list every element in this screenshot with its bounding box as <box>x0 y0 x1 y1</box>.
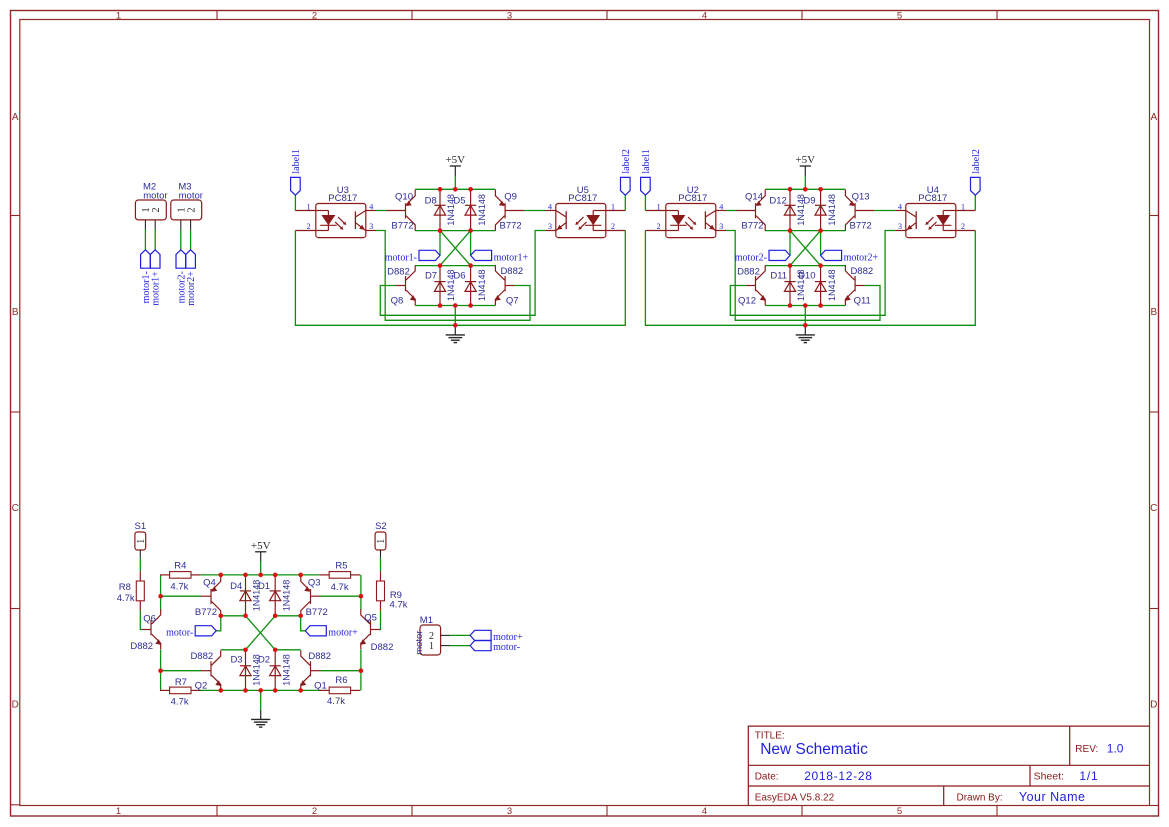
net flag label2 <box>971 177 981 195</box>
svg-text:4.7k: 4.7k <box>117 593 135 604</box>
svg-text:REV:: REV: <box>1075 744 1098 755</box>
svg-text:D882: D882 <box>737 266 760 277</box>
svg-text:1N4148: 1N4148 <box>477 269 487 301</box>
svg-text:B772: B772 <box>195 607 217 618</box>
svg-text:4: 4 <box>702 806 707 817</box>
switch pad S1 <box>135 532 146 550</box>
wire gnd stem <box>454 306 456 326</box>
svg-text:C: C <box>12 503 19 514</box>
transistor Q8 D882 <box>396 285 406 287</box>
diode D7 1N4148 <box>439 266 441 306</box>
svg-text:R6: R6 <box>335 675 347 686</box>
svg-text:label2: label2 <box>971 149 982 173</box>
wire Q3 collector row <box>275 615 301 617</box>
diode D4 1N4148 <box>245 575 247 616</box>
net flag motor2+ <box>821 250 842 260</box>
wire R7 leg <box>160 671 162 691</box>
wire U5.4 to Q9 base <box>524 210 545 212</box>
svg-text:New Schematic: New Schematic <box>760 741 868 758</box>
connector M1 motor <box>420 625 441 655</box>
net flag label1 <box>291 177 301 195</box>
svg-text:2: 2 <box>961 222 965 231</box>
svg-text:label2: label2 <box>621 149 632 173</box>
diode D12 1N4148 <box>789 189 791 230</box>
svg-text:Q4: Q4 <box>203 577 216 588</box>
svg-text:motor+: motor+ <box>328 628 358 639</box>
junction dots bottom bridge <box>219 573 224 578</box>
net flag label2 <box>621 177 631 195</box>
svg-text:D4: D4 <box>230 581 242 592</box>
net flag motor- <box>195 626 216 636</box>
wire cross diag 2 <box>440 231 471 266</box>
svg-text:1N4148: 1N4148 <box>477 194 487 226</box>
net flag motor2- <box>769 250 790 260</box>
wire motor+ stub <box>301 616 306 631</box>
svg-text:B772: B772 <box>391 220 413 231</box>
wire bottom cross diag 1 <box>246 616 276 650</box>
diode D9 1N4148 <box>820 189 822 230</box>
wire M3 pin2 to motor2+ <box>190 230 192 250</box>
wire bottom emitter rail <box>201 689 320 691</box>
wire U4.3 to Q12 base <box>730 231 895 316</box>
pin stubs M1 <box>441 634 451 636</box>
title block row line 2 <box>748 785 1149 787</box>
svg-text:5: 5 <box>897 10 902 21</box>
wire Q4 collector row <box>221 615 246 617</box>
diode D6 1N4148 <box>470 266 472 306</box>
junction dots bridge <box>788 187 793 192</box>
svg-text:D882: D882 <box>190 651 213 662</box>
svg-text:PC817: PC817 <box>328 193 357 204</box>
diode D11 1N4148 <box>789 266 791 306</box>
transistor Q3 B772 <box>311 595 321 597</box>
svg-text:1: 1 <box>307 202 311 211</box>
svg-text:C: C <box>1150 503 1157 514</box>
svg-text:D7: D7 <box>425 270 437 281</box>
title block row line 1 <box>748 764 1149 766</box>
wire U3.3 to Q7 base <box>376 231 530 321</box>
svg-text:3: 3 <box>507 806 512 817</box>
svg-text:3: 3 <box>898 222 902 231</box>
net flag motor- at M1 <box>470 641 491 651</box>
transistor Q6 D882 <box>141 629 151 631</box>
svg-text:B772: B772 <box>741 220 763 231</box>
svg-text:4.7k: 4.7k <box>170 582 188 593</box>
wire S1 to R8 <box>139 558 141 572</box>
svg-text:2: 2 <box>307 222 311 231</box>
svg-text:2: 2 <box>312 806 317 817</box>
wire M1 pin2 to motor+ <box>450 634 470 636</box>
svg-text:D5: D5 <box>453 196 465 207</box>
svg-text:motor1-: motor1- <box>385 252 417 263</box>
svg-text:D3: D3 <box>230 655 242 666</box>
resistor R6 4.7k <box>320 689 330 691</box>
svg-text:3: 3 <box>369 222 373 231</box>
wire Q1 collector row <box>275 649 301 651</box>
svg-text:B772: B772 <box>306 607 328 618</box>
svg-text:2: 2 <box>657 222 661 231</box>
transistor Q11 D882 <box>855 285 865 287</box>
title block date/sheet divider <box>1029 765 1031 786</box>
svg-text:1N4148: 1N4148 <box>282 654 292 686</box>
wire U2.3 to Q11 base <box>726 231 880 321</box>
ground symbol bottom <box>260 710 262 720</box>
wire U4.4 to Q13 base <box>874 210 895 212</box>
transistor Q10 B772 <box>387 210 406 212</box>
svg-text:Q12: Q12 <box>738 296 756 307</box>
wire base row left to Q4 <box>161 595 201 597</box>
svg-text:3: 3 <box>548 222 552 231</box>
wire Q6 collector net <box>160 596 162 610</box>
row ticks right <box>1150 215 1159 217</box>
svg-text:S1: S1 <box>134 521 146 532</box>
svg-text:Your Name: Your Name <box>1019 790 1086 804</box>
transistor Q1 D882 <box>311 670 321 672</box>
svg-text:1/1: 1/1 <box>1079 769 1098 783</box>
svg-text:D882: D882 <box>500 266 523 277</box>
svg-text:B772: B772 <box>850 220 872 231</box>
svg-text:Q9: Q9 <box>504 192 517 203</box>
svg-text:motor: motor <box>179 190 203 201</box>
net flag motor1- <box>419 250 440 260</box>
svg-text:motor1+: motor1+ <box>151 271 162 306</box>
net flag motor+ at M1 <box>470 630 491 640</box>
wire motor- stub <box>216 616 221 631</box>
svg-text:EasyEDA V5.8.22: EasyEDA V5.8.22 <box>755 792 835 803</box>
svg-text:PC817: PC817 <box>678 193 707 204</box>
wire Q5 collector net <box>360 596 362 610</box>
transistor Q4 B772 <box>201 595 211 597</box>
svg-text:3: 3 <box>507 10 512 21</box>
svg-text:Date:: Date: <box>755 772 779 783</box>
row ticks left <box>11 215 20 217</box>
connector M3 motor <box>171 200 202 220</box>
pin stubs M3 <box>180 220 182 230</box>
column ticks bottom <box>216 806 218 817</box>
wire M2 pin1 to motor1- <box>144 230 146 250</box>
svg-text:2: 2 <box>151 207 162 212</box>
net flag motor1+ <box>150 250 160 268</box>
svg-text:B772: B772 <box>500 220 522 231</box>
svg-text:D882: D882 <box>308 651 331 662</box>
svg-text:2018-12-28: 2018-12-28 <box>804 769 872 783</box>
wire cross diag 1 <box>790 231 821 266</box>
wire lower bridge row <box>765 265 845 267</box>
svg-text:1: 1 <box>136 539 147 544</box>
svg-text:R8: R8 <box>119 582 131 593</box>
svg-text:4: 4 <box>369 202 373 211</box>
connector M2 motor <box>135 200 166 220</box>
svg-text:motor2+: motor2+ <box>186 271 197 306</box>
net flag motor+ <box>305 626 326 636</box>
svg-text:Q2: Q2 <box>195 681 208 692</box>
svg-text:1: 1 <box>116 10 121 21</box>
svg-text:4.7k: 4.7k <box>171 697 189 708</box>
svg-text:4: 4 <box>702 10 707 21</box>
svg-text:PC817: PC817 <box>918 193 947 204</box>
svg-text:B: B <box>1150 307 1157 318</box>
frame bottom-right tick <box>1150 805 1159 807</box>
svg-text:R4: R4 <box>174 561 186 572</box>
wire M2 pin2 to motor1+ <box>154 230 156 250</box>
wire motor1+ stub <box>470 231 472 256</box>
svg-text:D1: D1 <box>258 581 270 592</box>
svg-text:D882: D882 <box>850 266 873 277</box>
wire S2 to R9 <box>380 558 382 572</box>
svg-text:label1: label1 <box>641 149 652 173</box>
svg-text:A: A <box>12 112 19 123</box>
optocoupler U3 PC817 <box>316 204 366 238</box>
svg-text:D6: D6 <box>453 270 465 281</box>
svg-text:Q10: Q10 <box>395 192 413 203</box>
wire label1 to pin1 <box>294 195 296 210</box>
junction dots bridge <box>438 187 443 192</box>
wire Q6 emitter to Q2 base <box>161 650 201 671</box>
wire bottom gnd stem <box>260 690 262 709</box>
svg-text:1.0: 1.0 <box>1107 741 1124 755</box>
svg-text:Q14: Q14 <box>745 192 763 203</box>
svg-text:4.7k: 4.7k <box>331 582 349 593</box>
svg-text:S2: S2 <box>375 521 387 532</box>
svg-text:motor-: motor- <box>166 628 193 639</box>
wire label2 to pin1 <box>624 195 626 210</box>
wire Q6 base from R8 <box>139 610 142 629</box>
title block REV divider <box>1069 726 1071 765</box>
svg-text:D882: D882 <box>371 642 394 653</box>
wire top +5V rail <box>415 188 495 190</box>
svg-text:Drawn By:: Drawn By: <box>957 792 1003 803</box>
svg-text:1N4148: 1N4148 <box>827 194 837 226</box>
wire cross diag 1 <box>440 231 471 266</box>
net flag motor1+ <box>471 250 492 260</box>
wire +5V stem motor1- <box>454 176 456 189</box>
wire +5V stem motor2- <box>804 176 806 189</box>
svg-text:4: 4 <box>548 202 552 211</box>
svg-text:2: 2 <box>186 207 197 212</box>
svg-text:1N4148: 1N4148 <box>282 580 292 612</box>
svg-text:Q3: Q3 <box>308 577 321 588</box>
wire Q2 collector row <box>221 649 246 651</box>
net flag label1 <box>641 177 651 195</box>
resistor R8 4.7k <box>139 571 141 581</box>
svg-text:D2: D2 <box>258 655 270 666</box>
svg-text:1: 1 <box>657 202 661 211</box>
wire bottom +5V stem <box>260 562 262 575</box>
svg-text:R5: R5 <box>335 561 347 572</box>
wire label2 to pin1 <box>974 195 976 210</box>
transistor Q12 D882 <box>746 285 756 287</box>
ground symbol <box>454 325 456 335</box>
svg-text:A: A <box>1150 112 1157 123</box>
svg-text:B: B <box>12 307 19 318</box>
net flag motor1- <box>141 250 151 268</box>
svg-text:1: 1 <box>611 202 615 211</box>
diode D5 1N4148 <box>470 189 472 230</box>
diode D2 1N4148 <box>274 650 276 691</box>
svg-text:PC817: PC817 <box>568 193 597 204</box>
svg-text:motor: motor <box>414 631 425 655</box>
title block border <box>748 726 1149 805</box>
svg-text:3: 3 <box>719 222 723 231</box>
svg-text:Q7: Q7 <box>506 296 519 307</box>
svg-text:Q5: Q5 <box>364 613 377 624</box>
svg-text:+5V: +5V <box>445 154 465 166</box>
svg-text:motor2+: motor2+ <box>844 252 879 263</box>
wire M1 pin1 to motor- <box>450 645 470 647</box>
svg-text:2: 2 <box>611 222 615 231</box>
svg-text:motor-: motor- <box>493 642 520 653</box>
wire motor2+ stub <box>820 231 822 256</box>
wire cross diag 2 <box>790 231 821 266</box>
optocoupler U2 PC817 <box>666 204 716 238</box>
svg-text:D: D <box>12 699 19 710</box>
svg-text:D10: D10 <box>798 270 815 281</box>
switch pad S2 <box>375 532 386 550</box>
wire emitter rail <box>765 305 845 307</box>
column ticks top <box>216 11 218 20</box>
svg-text:1: 1 <box>429 641 434 652</box>
svg-text:Sheet:: Sheet: <box>1034 771 1064 783</box>
svg-text:label1: label1 <box>291 149 302 173</box>
wire Q5 emitter to Q1 base <box>321 650 361 671</box>
wire U3.4 to Q10 base <box>376 210 386 212</box>
svg-text:+5V: +5V <box>251 540 271 552</box>
svg-text:D11: D11 <box>770 270 787 281</box>
svg-text:1N4148: 1N4148 <box>827 269 837 301</box>
transistor Q7 D882 <box>505 285 514 287</box>
svg-text:D882: D882 <box>130 641 153 652</box>
resistor R4 4.7k <box>160 574 170 576</box>
frame bottom-left tick <box>11 804 20 806</box>
wire pin2 to gnd net <box>645 231 975 326</box>
svg-text:Q13: Q13 <box>852 192 870 203</box>
net flag motor2+ <box>186 250 196 268</box>
wire upper bridge row <box>415 230 495 232</box>
svg-text:Q11: Q11 <box>854 296 871 307</box>
optocoupler U5 PC817 <box>556 204 606 238</box>
svg-text:R7: R7 <box>175 677 187 688</box>
wire bottom top rail <box>160 575 162 596</box>
wire U2.4 to Q14 base <box>726 210 736 212</box>
transistor Q5 D882 <box>371 629 381 631</box>
wire motor2- stub <box>789 231 791 256</box>
wire label1 to pin1 <box>644 195 646 210</box>
svg-text:D9: D9 <box>803 196 815 207</box>
svg-text:+5V: +5V <box>795 154 815 166</box>
svg-text:Q8: Q8 <box>391 296 404 307</box>
wire M3 pin1 to motor2- <box>180 230 182 250</box>
svg-text:motor2-: motor2- <box>735 252 767 263</box>
svg-text:5: 5 <box>897 806 902 817</box>
svg-text:D882: D882 <box>387 266 410 277</box>
svg-text:4: 4 <box>719 202 723 211</box>
optocoupler U4 PC817 <box>906 204 956 238</box>
svg-text:D8: D8 <box>425 196 437 207</box>
wire gnd stem <box>804 306 806 326</box>
wire motor1- stub <box>439 231 441 256</box>
wire upper bridge row <box>765 230 845 232</box>
resistor R9 4.7k <box>380 571 382 581</box>
svg-text:motor: motor <box>143 190 167 201</box>
wire emitter rail <box>415 305 495 307</box>
diode D10 1N4148 <box>820 266 822 306</box>
svg-text:Q1: Q1 <box>314 681 327 692</box>
svg-text:motor1+: motor1+ <box>494 252 529 263</box>
svg-text:D: D <box>1150 699 1157 710</box>
ground symbol <box>804 325 806 335</box>
svg-text:D12: D12 <box>769 196 786 207</box>
pin stubs M2 <box>144 220 146 230</box>
svg-text:4.7k: 4.7k <box>390 600 408 611</box>
diode D3 1N4148 <box>245 650 247 691</box>
wire Q5 base from R9 <box>379 610 382 629</box>
svg-text:1: 1 <box>116 806 121 817</box>
svg-text:1: 1 <box>961 202 965 211</box>
diode D1 1N4148 <box>274 575 276 616</box>
svg-text:4: 4 <box>898 202 902 211</box>
wire pin2 to gnd net <box>295 231 625 326</box>
svg-text:Q6: Q6 <box>143 614 156 625</box>
transistor Q2 D882 <box>201 670 211 672</box>
wire lower bridge row <box>415 265 495 267</box>
net flag motor2- <box>176 250 186 268</box>
wire R6 leg <box>360 671 362 691</box>
svg-text:M1: M1 <box>420 615 433 626</box>
wire bottom cross diag 2 <box>246 616 276 650</box>
resistor R7 4.7k <box>160 689 170 691</box>
svg-text:2: 2 <box>312 10 317 21</box>
transistor Q9 B772 <box>505 210 524 212</box>
diode D8 1N4148 <box>439 189 441 230</box>
title block drawnby divider <box>943 786 945 806</box>
transistor Q14 B772 <box>737 210 756 212</box>
svg-text:1: 1 <box>376 539 387 544</box>
wire top +5V rail <box>765 188 845 190</box>
wire base row right to Q3 <box>321 595 361 597</box>
resistor R5 4.7k <box>320 574 330 576</box>
svg-text:4.7k: 4.7k <box>327 696 345 707</box>
wire U5.3 to Q8 base <box>380 231 545 316</box>
transistor Q13 B772 <box>855 210 874 212</box>
